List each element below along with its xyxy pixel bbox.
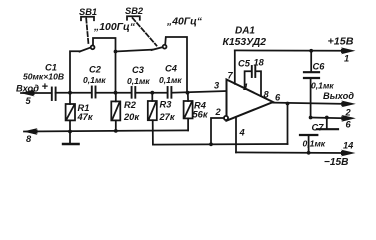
label pin 7 [228, 71, 234, 81]
node input arrow pin 5 [20, 90, 35, 97]
label C6 [311, 62, 334, 91]
resistor R3 [148, 93, 157, 145]
label pin 8 left [26, 134, 32, 144]
svg-text:+: + [42, 81, 49, 93]
svg-text:18: 18 [254, 58, 265, 68]
svg-text:27к: 27к [159, 112, 176, 122]
label pin 1 right [344, 54, 349, 64]
wire SB1 contact to node B riser [93, 38, 116, 93]
node +15V arrow pin 1 [341, 47, 356, 54]
svg-text:−15B: −15B [324, 157, 349, 168]
svg-text:0,1мк: 0,1мк [311, 81, 334, 91]
resistor R1 [66, 93, 75, 132]
capacitor C3 [132, 87, 136, 98]
label C7 [303, 123, 326, 149]
wire C3 to node C [135, 92, 167, 94]
svg-text:R2: R2 [124, 100, 137, 110]
label pin 6 [275, 93, 281, 103]
label +15V [328, 37, 355, 48]
svg-text:+15B: +15B [328, 37, 355, 48]
svg-text:„100Гц“: „100Гц“ [93, 22, 136, 33]
label SB1 [79, 7, 97, 17]
svg-text:SB1: SB1 [79, 7, 97, 17]
svg-text:6: 6 [346, 120, 352, 130]
op-amp pin 7 supply riser [234, 50, 236, 83]
svg-text:20к: 20к [123, 112, 140, 122]
wire common line pin 8 [24, 130, 188, 131]
svg-text:SB2: SB2 [125, 6, 144, 16]
wire output line [273, 103, 344, 104]
op-amp U1 triangle [227, 80, 274, 121]
label Vhod input [16, 81, 49, 94]
label pin 14 [343, 141, 354, 151]
label R4 [193, 101, 209, 120]
svg-text:2: 2 [345, 108, 352, 118]
svg-text:C6: C6 [313, 62, 326, 72]
switch SB1 contact [91, 45, 95, 49]
wire SB2 contact to node D riser [165, 37, 187, 93]
svg-text:C2: C2 [89, 65, 102, 75]
op-amp pin 4 riser [235, 117, 237, 152]
svg-text:R3: R3 [160, 100, 173, 110]
label R2 [123, 100, 140, 122]
switch SB2 blade [152, 47, 163, 50]
op-amp pin 2 input circle [224, 116, 228, 120]
svg-text:8: 8 [264, 90, 270, 100]
capacitor C5 [245, 66, 261, 96]
svg-text:Выход: Выход [323, 91, 354, 101]
label C4 [159, 64, 182, 86]
node junction dots [68, 49, 329, 155]
label Vyhod output [323, 91, 354, 101]
svg-text:0,1мк: 0,1мк [303, 139, 326, 149]
label -15V [324, 157, 349, 168]
wire C1 to node A [56, 92, 92, 94]
svg-text:4: 4 [239, 128, 246, 138]
label pin 8 [264, 90, 270, 100]
label C5 value [238, 58, 265, 69]
wire node A riser to SB1 [70, 51, 80, 92]
wire -15V rail [236, 151, 344, 154]
node -15V arrow pin 14 [341, 150, 356, 157]
switch SB1 blade [80, 48, 91, 52]
wire C4 to op-amp pin 3 [171, 91, 226, 93]
label pin 4 [239, 128, 246, 138]
svg-text:0,1мк: 0,1мк [159, 75, 182, 85]
capacitor C6 [304, 51, 319, 118]
wire feedback line [153, 143, 288, 146]
svg-text:DA1: DA1 [235, 26, 255, 37]
wire C2 to node B [96, 92, 132, 94]
svg-text:2: 2 [215, 107, 222, 117]
label 40Hz [166, 17, 203, 28]
wire input line [21, 92, 51, 94]
resistor R2 [111, 93, 120, 131]
label R1 [77, 103, 94, 122]
wire +15V rail [235, 49, 344, 51]
svg-text:C5: C5 [238, 59, 251, 69]
label pin 2 [215, 107, 222, 117]
switch SB2 contact [163, 45, 167, 49]
switch SB2 button symbol [127, 16, 157, 45]
svg-text:C4: C4 [165, 64, 178, 74]
node output arrow pin 2 [341, 101, 356, 108]
label pin 2 right [345, 108, 352, 118]
wire output to feedback vertical [287, 103, 289, 144]
switch SB1 button symbol [81, 17, 94, 46]
ground [63, 131, 79, 144]
node common arrow pin 8 [23, 128, 38, 135]
svg-text:7: 7 [228, 71, 234, 81]
label C1 [23, 63, 64, 82]
svg-text:50мк×10B: 50мк×10B [23, 72, 64, 82]
svg-text:14: 14 [343, 141, 354, 151]
svg-text:3: 3 [214, 81, 220, 91]
resistor R4 [184, 93, 193, 131]
label R3 [159, 100, 176, 123]
wire node B to SB2 [116, 50, 153, 52]
svg-text:К153УД2: К153УД2 [223, 37, 267, 48]
svg-text:C3: C3 [132, 65, 145, 75]
svg-text:C7: C7 [312, 123, 325, 133]
label C2 [83, 65, 106, 86]
label C3 [127, 65, 150, 86]
node common arrow pin 6 [341, 115, 356, 122]
capacitor C1 [52, 88, 56, 101]
svg-text:47к: 47к [77, 112, 94, 122]
label pin 1 [243, 82, 248, 92]
svg-text:1: 1 [344, 54, 349, 64]
svg-text:8: 8 [26, 134, 32, 144]
wire common 6 line [311, 117, 344, 120]
wire pin 2 to feedback [211, 118, 224, 144]
svg-text:1: 1 [243, 82, 248, 92]
label SB2 [125, 6, 144, 16]
svg-text:6: 6 [275, 93, 281, 103]
label pin 3 [214, 81, 220, 91]
svg-text:„40Гц“: „40Гц“ [166, 17, 203, 28]
capacitor C7 [300, 118, 338, 153]
label 100Hz [93, 22, 136, 33]
svg-text:Вход: Вход [16, 84, 39, 94]
label pin 6 right [346, 120, 352, 130]
svg-text:0,1мк: 0,1мк [83, 75, 106, 85]
svg-text:5: 5 [26, 96, 32, 106]
capacitor C2 [92, 87, 96, 98]
capacitor C4 [168, 87, 172, 98]
svg-text:0,1мк: 0,1мк [127, 76, 150, 86]
label pin 5 [26, 96, 32, 106]
label DA1 [223, 26, 267, 48]
svg-text:56к: 56к [193, 110, 209, 120]
